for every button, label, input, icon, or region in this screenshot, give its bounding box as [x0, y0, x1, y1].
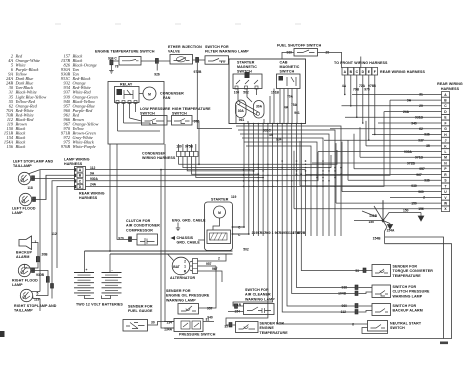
svg-text:VALVE: VALVE	[168, 50, 180, 54]
pin wire 960	[267, 124, 269, 237]
front harness drop wires	[344, 75, 376, 141]
lamp wire 24A run	[86, 112, 385, 187]
svg-text:LAMP: LAMP	[12, 283, 23, 287]
wire 9A to rear harness pin B	[390, 99, 442, 101]
part number blob	[440, 342, 448, 345]
svg-text:940: 940	[207, 316, 213, 320]
svg-text:35: 35	[426, 144, 430, 148]
rear harness strip wires	[294, 93, 442, 211]
lamp wiring harness connector	[64, 158, 105, 201]
horizontal band rows (lamp + condenser runs)	[86, 70, 391, 237]
svg-text:RELAY: RELAY	[120, 83, 133, 87]
svg-text:119: 119	[34, 298, 39, 302]
svg-text:972B: 972B	[407, 161, 416, 165]
svg-text:M: M	[148, 92, 151, 96]
enclosure drop verticals	[109, 144, 111, 251]
svg-text:30A: 30A	[238, 109, 245, 113]
svg-text:SWITCH: SWITCH	[280, 70, 295, 74]
fuse pair 30A	[236, 100, 265, 122]
condenser row feed verticals	[179, 144, 196, 152]
svg-text:936: 936	[424, 133, 430, 137]
svg-text:REAR WIRING: REAR WIRING	[437, 82, 463, 86]
battery cables to starter	[85, 250, 233, 252]
svg-text:53: 53	[355, 269, 359, 273]
under-starter feeder verticals	[0, 0, 1, 1]
svg-text:REAR WIRING: REAR WIRING	[79, 192, 105, 196]
svg-text:957: 957	[206, 262, 212, 266]
svg-text:M: M	[218, 211, 221, 215]
svg-text:HARNESS: HARNESS	[64, 162, 83, 166]
svg-text:24A: 24A	[403, 110, 410, 114]
svg-text:150: 150	[411, 201, 417, 205]
svg-text:971B: 971B	[415, 156, 424, 160]
wire 972B to rear harness pin N	[312, 162, 442, 164]
svg-text:STARTER: STARTER	[211, 198, 229, 202]
to front wiring harness connector A-F	[334, 57, 388, 92]
condenser fan motor	[139, 87, 184, 100]
starter	[205, 195, 249, 252]
condenser system enclosure box	[108, 82, 164, 145]
svg-text:SWITCH FOR: SWITCH FOR	[245, 288, 269, 292]
sender for fuel gauge	[123, 305, 155, 332]
connector 926	[154, 58, 160, 76]
pin wire 972B	[300, 124, 302, 237]
svg-text:T: T	[444, 184, 446, 188]
high temperature switch	[172, 107, 212, 125]
wire 939 to rear harness pin T	[300, 185, 442, 187]
ether injection valve	[168, 45, 202, 64]
svg-text:4A: 4A	[342, 84, 347, 88]
switch for filter warning lamp	[205, 45, 249, 64]
svg-text:HARNESS: HARNESS	[79, 196, 98, 200]
svg-text:RIGHT STOPLAMP AND: RIGHT STOPLAMP AND	[14, 304, 57, 308]
svg-text:2: 2	[423, 196, 425, 200]
wire 35 to rear harness pin K	[366, 145, 442, 147]
svg-text:SENDER FOR: SENDER FOR	[166, 289, 191, 293]
svg-text:CHASSIS: CHASSIS	[177, 236, 194, 240]
svg-text:RIGHT FLOOD: RIGHT FLOOD	[12, 279, 38, 283]
svg-text:926: 926	[154, 73, 160, 77]
svg-text:SWITCH: SWITCH	[172, 112, 187, 116]
svg-text:CAB: CAB	[280, 61, 288, 65]
wire 937 to rear harness pin J	[324, 139, 442, 141]
lamp harness feed wires (left vertical runs)	[40, 170, 75, 311]
svg-text:WIRING HARNESS: WIRING HARNESS	[142, 156, 176, 160]
svg-text:ENG. GRD. CABLE: ENG. GRD. CABLE	[172, 219, 206, 223]
wire 930A to rear harness pin L	[318, 151, 442, 153]
backup alarm	[16, 236, 48, 268]
svg-text:HIGH TEMPERATURE: HIGH TEMPERATURE	[172, 107, 211, 111]
svg-text:112: 112	[51, 232, 56, 236]
svg-text:150: 150	[403, 208, 409, 212]
svg-text:31: 31	[419, 93, 423, 97]
svg-text:29: 29	[419, 104, 423, 108]
pin wire 967	[276, 124, 278, 237]
svg-text:SWITCH FOR: SWITCH FOR	[205, 45, 229, 49]
svg-text:78: 78	[115, 65, 119, 69]
staircase feeds to bottom components	[226, 236, 349, 325]
svg-text:960: 960	[418, 190, 424, 194]
svg-text:TORQUE CONVERTER: TORQUE CONVERTER	[393, 269, 434, 273]
junction dots on band crossings	[243, 169, 250, 187]
svg-text:975B: 975B	[185, 145, 194, 149]
strip row feeder stubs	[294, 121, 366, 209]
left flood lamp	[12, 175, 75, 215]
svg-text:AIR CONDITIONER: AIR CONDITIONER	[126, 224, 160, 228]
switch for air cleaner warning lamp	[228, 288, 275, 315]
svg-text:49: 49	[269, 133, 273, 137]
svg-text:HARNESS: HARNESS	[441, 87, 460, 91]
wire 35 to engine temp sender	[226, 236, 268, 325]
svg-text:930A: 930A	[404, 150, 413, 154]
wire 931B to rear harness pin E	[345, 116, 442, 118]
svg-text:934 C: 934 C	[108, 56, 117, 60]
svg-text:G: G	[444, 127, 447, 131]
svg-text:2: 2	[184, 260, 186, 264]
svg-text:154B: 154B	[373, 237, 382, 241]
wire 936 to rear harness pin H	[372, 133, 442, 135]
two 12 volt batteries	[74, 251, 123, 307]
lamp wire 930A run	[86, 152, 319, 181]
wire 154B loop to bottom right	[385, 237, 444, 339]
wire 53 to torque sender	[301, 236, 344, 271]
top margin tick marks	[55, 23, 301, 25]
neutral start switch	[340, 321, 422, 334]
svg-text:COMPRESSOR: COMPRESSOR	[126, 228, 153, 232]
pin wire 112	[291, 124, 293, 237]
wire 971B to air cleaner switch	[233, 236, 273, 306]
svg-text:SENDER FOR: SENDER FOR	[128, 305, 153, 309]
svg-text:LAMP: LAMP	[12, 211, 23, 215]
sender for torque converter temperature	[344, 265, 433, 278]
svg-text:CONDENSER: CONDENSER	[160, 92, 184, 96]
pin wire 957	[257, 124, 259, 237]
svg-text:PRESSURE SWITCH: PRESSURE SWITCH	[179, 333, 216, 337]
starter magnetic switch	[233, 61, 262, 95]
wire: starter switch to starter motor C1	[233, 124, 245, 228]
rear wiring harness connector strip	[437, 82, 463, 212]
svg-text:F: F	[374, 70, 376, 74]
svg-text:940: 940	[411, 121, 417, 125]
svg-text:957: 957	[419, 167, 425, 171]
svg-text:960: 960	[265, 231, 271, 235]
wire 112 to backup alarm switch	[282, 236, 348, 312]
wire 960 to backup alarm switch	[287, 236, 349, 306]
wire 957 to rear harness pin P	[354, 168, 442, 170]
pin wire 937	[262, 124, 264, 237]
wire 31 to rear harness pin A	[352, 93, 442, 95]
wire: engine temp switch to ether injection valve	[141, 60, 170, 62]
engine temperature switch	[95, 50, 155, 74]
bend rows to right feeder verticals	[236, 126, 341, 236]
svg-text:SWITCH: SWITCH	[390, 326, 405, 330]
svg-text:CONDENSER: CONDENSER	[142, 152, 166, 156]
svg-text:ALTERNATOR: ALTERNATOR	[170, 276, 195, 280]
svg-text:6: 6	[352, 323, 354, 327]
svg-text:SENDER FOR: SENDER FOR	[393, 265, 418, 269]
svg-text:1: 1	[184, 265, 186, 269]
ground junction 150/154	[354, 200, 424, 244]
wire 967 to rear harness pin R	[306, 174, 442, 176]
lamp wire 9A run	[86, 100, 391, 175]
svg-text:FILTER WARNING LAMP: FILTER WARNING LAMP	[205, 50, 249, 54]
pin wire 971B	[296, 124, 298, 237]
pressure switch	[164, 316, 216, 337]
svg-text:30A: 30A	[256, 105, 263, 109]
svg-text:WARNING LAMP: WARNING LAMP	[245, 297, 275, 301]
svg-text:BACKUP: BACKUP	[16, 251, 32, 255]
svg-text:LAMP WIRING: LAMP WIRING	[64, 158, 90, 162]
svg-text:130: 130	[176, 145, 182, 149]
wires inside enclosure	[237, 89, 239, 101]
svg-text:NEUTRAL START: NEUTRAL START	[390, 322, 422, 326]
svg-text:TEMPERATURE: TEMPERATURE	[393, 274, 422, 278]
pin wire 939	[281, 124, 283, 237]
svg-text:AIR CLEANER: AIR CLEANER	[245, 293, 271, 297]
svg-text:TEMPERATURE: TEMPERATURE	[260, 331, 289, 335]
svg-text:BACKUP ALARM: BACKUP ALARM	[393, 309, 423, 313]
svg-text:502: 502	[243, 248, 249, 252]
svg-text:WARNING LAMP: WARNING LAMP	[393, 294, 423, 298]
svg-text:931B: 931B	[415, 116, 424, 120]
wire 156 to rear harness pin X	[294, 208, 442, 210]
svg-text:F: F	[444, 121, 446, 125]
wire 6 to neutral start switch	[277, 236, 340, 324]
wire 29 to rear harness pin C	[342, 105, 442, 107]
svg-text:FAN: FAN	[163, 96, 171, 100]
svg-text:CLUTCH FOR: CLUTCH FOR	[126, 219, 151, 223]
right stoplamp and taillamp	[14, 289, 57, 312]
pin wire 21	[253, 124, 255, 237]
wire 936 to rear harness pin S	[348, 179, 442, 181]
970/972B drops join band	[197, 70, 232, 129]
svg-text:970: 970	[194, 120, 200, 124]
wire 940 to rear harness pin F	[378, 122, 442, 124]
mesh junction dots	[243, 123, 342, 187]
svg-text:967: 967	[212, 267, 218, 271]
svg-text:62: 62	[419, 127, 423, 131]
wire color legend table	[4, 54, 99, 150]
svg-text:970: 970	[118, 237, 124, 241]
starter and cab magnetic switch enclosure box	[229, 59, 306, 124]
svg-text:ETHER INJECTION: ETHER INJECTION	[168, 45, 202, 49]
condenser drop runs	[179, 150, 337, 164]
svg-text:9A: 9A	[407, 98, 412, 102]
svg-text:976B: 976B	[61, 144, 70, 149]
svg-text:SWITCH: SWITCH	[140, 112, 155, 116]
clutch for air conditioner compressor	[118, 219, 160, 245]
wire 960 to rear harness pin U	[342, 191, 442, 193]
eng grd cable	[172, 219, 206, 231]
switch for clutch pressure warning lamp	[338, 285, 430, 298]
svg-text:LOW PRESSURE: LOW PRESSURE	[140, 107, 171, 111]
condenser wiring harness connector	[142, 145, 198, 161]
svg-text:TAILLAMP: TAILLAMP	[13, 164, 32, 168]
wire: starter switch to starter motor C2	[233, 124, 249, 235]
fuel shutoff switch	[277, 43, 342, 68]
wire 150 to rear harness pin W	[336, 202, 442, 204]
svg-text:LEFT FLOOD: LEFT FLOOD	[12, 207, 36, 211]
svg-text:502: 502	[243, 91, 249, 95]
wire 2 to rear harness pin V	[390, 196, 442, 198]
svg-text:MAGNETIC: MAGNETIC	[280, 65, 300, 69]
svg-text:151B: 151B	[271, 91, 280, 95]
svg-text:ENGINE: ENGINE	[260, 326, 275, 330]
svg-text:931C: 931C	[263, 129, 272, 133]
wire 971B to rear harness pin M	[360, 156, 442, 158]
svg-text:937: 937	[418, 138, 424, 142]
pin wire 53	[286, 124, 288, 237]
bottom border wire loop	[174, 244, 452, 339]
alternator	[168, 254, 227, 308]
sender for engine temperature	[224, 322, 288, 335]
svg-text:112: 112	[90, 166, 95, 170]
svg-text:20B: 20B	[42, 253, 49, 257]
chassis grd cable	[171, 236, 205, 245]
svg-text:156: 156	[418, 207, 424, 211]
svg-text:CLUTCH PRESSURE: CLUTCH PRESSURE	[393, 290, 431, 294]
svg-text:957: 957	[207, 307, 213, 311]
wire 24A to rear harness pin D	[384, 111, 442, 113]
svg-text:930A: 930A	[90, 177, 99, 181]
svg-text:5: 5	[37, 292, 39, 296]
svg-text:BAT: BAT	[173, 265, 180, 269]
svg-text:FUEL SHUTOFF SWITCH: FUEL SHUTOFF SWITCH	[277, 43, 322, 47]
svg-text:100: 100	[234, 91, 240, 95]
right flood lamp	[12, 264, 54, 295]
svg-text:J: J	[445, 139, 447, 143]
svg-text:+: +	[86, 268, 88, 272]
lamp wire 112 run	[86, 170, 306, 236]
svg-text:ENGINE OIL PRESSURE: ENGINE OIL PRESSURE	[166, 294, 210, 298]
svg-text:LEFT STOPLAMP AND: LEFT STOPLAMP AND	[13, 160, 53, 164]
pressure switch feeders	[153, 144, 174, 328]
svg-text:Black: Black	[16, 144, 26, 149]
svg-text:GRD. CABLE: GRD. CABLE	[177, 241, 201, 245]
svg-text:70B: 70B	[353, 88, 360, 92]
svg-text:2: 2	[218, 257, 220, 261]
svg-text:TWO 12 VOLT BATTERIES: TWO 12 VOLT BATTERIES	[76, 303, 123, 307]
switch for backup alarm	[341, 304, 423, 316]
svg-text:119: 119	[231, 195, 236, 199]
wire + connector 972B after ether valve	[193, 57, 206, 73]
svg-text:MAGNETIC: MAGNETIC	[237, 65, 257, 69]
svg-text:976B: 976B	[368, 84, 377, 88]
svg-text:SWITCH FOR: SWITCH FOR	[393, 285, 417, 289]
svg-text:154A: 154A	[387, 229, 396, 233]
svg-text:156: 156	[7, 144, 14, 149]
svg-text:L: L	[444, 150, 446, 154]
svg-text:1: 1	[35, 240, 37, 244]
left edge mark	[0, 331, 5, 337]
svg-text:White-Purple: White-Purple	[73, 144, 96, 149]
svg-text:118: 118	[27, 186, 32, 190]
wire 104B to clutch pressure switch	[292, 236, 349, 294]
svg-text:WARNING LAMP: WARNING LAMP	[166, 298, 196, 302]
left stoplamp and taillamp	[13, 160, 75, 191]
relay	[115, 83, 140, 104]
svg-text:M: M	[444, 156, 447, 160]
pin wire 1	[272, 124, 274, 237]
svg-text:TAILLAMP: TAILLAMP	[14, 309, 33, 313]
wires relay/fan/switches	[117, 103, 119, 132]
wire 62 to rear harness pin G	[330, 128, 442, 130]
svg-text:24A: 24A	[90, 183, 97, 187]
svg-text:134: 134	[166, 321, 172, 325]
svg-text:939: 939	[411, 184, 417, 188]
svg-text:961: 961	[239, 118, 245, 122]
svg-text:SENDER FOR: SENDER FOR	[260, 322, 285, 326]
svg-text:30: 30	[151, 321, 155, 325]
svg-text:STARTER: STARTER	[237, 61, 255, 65]
sender for engine oil pressure warning lamp	[166, 289, 213, 314]
svg-text:SWITCH FOR: SWITCH FOR	[393, 304, 417, 308]
low pressure switch	[140, 107, 171, 125]
svg-text:ENGINE TEMPERATURE SWITCH: ENGINE TEMPERATURE SWITCH	[95, 50, 155, 54]
cab magnetic switch	[271, 61, 300, 116]
ground junction feeder	[382, 200, 384, 222]
svg-text:936: 936	[424, 179, 430, 183]
svg-text:FUEL GAUGE: FUEL GAUGE	[128, 309, 153, 313]
svg-text:1: 1	[272, 231, 274, 235]
center wire mesh: magnetic box pin verticals	[233, 124, 306, 237]
wire 938 to clutch pressure switch	[297, 236, 349, 288]
svg-text:REAR WIRING HARNESS: REAR WIRING HARNESS	[380, 70, 426, 74]
svg-text:972B: 972B	[194, 70, 203, 74]
svg-text:9A: 9A	[90, 171, 95, 175]
svg-text:ALARM: ALARM	[16, 255, 29, 259]
svg-text:972B: 972B	[297, 231, 306, 235]
svg-text:-: -	[111, 268, 112, 272]
svg-text:967: 967	[416, 173, 422, 177]
